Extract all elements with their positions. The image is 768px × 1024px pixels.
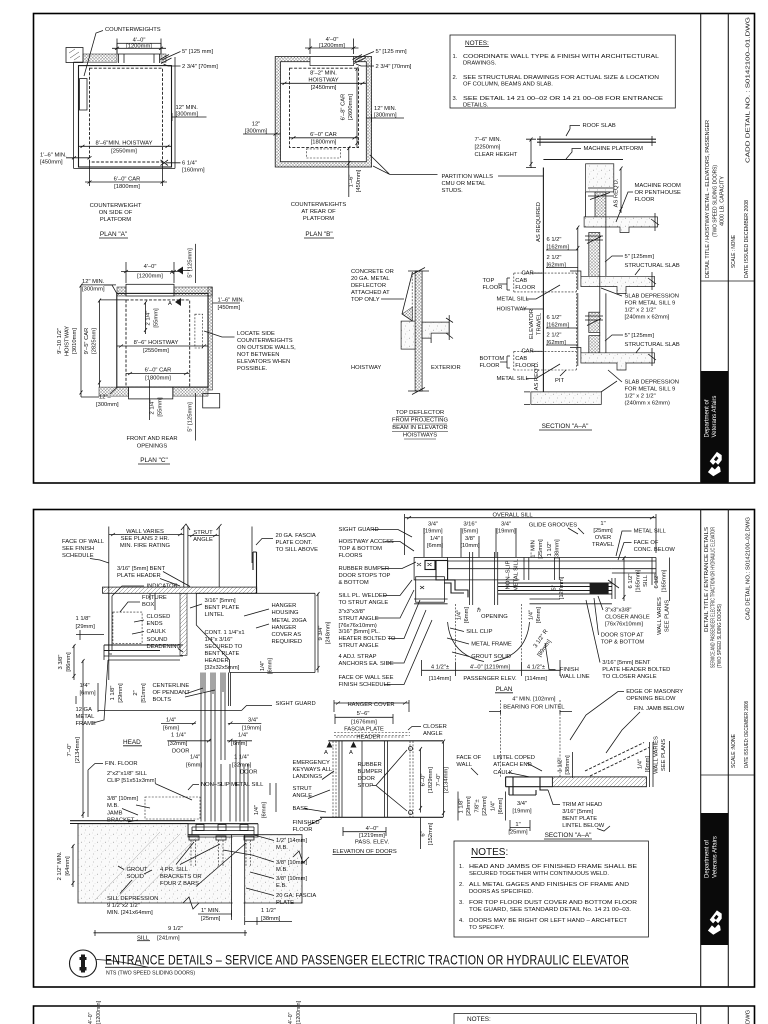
svg-text:PARTITION WALLS: PARTITION WALLS (442, 174, 494, 180)
sill assembly top (188, 824, 258, 835)
svg-text:ANCHORS EA. SIDE: ANCHORS EA. SIDE (339, 661, 394, 667)
svg-text:[25mm]: [25mm] (201, 916, 221, 922)
frame profile below header left (109, 593, 155, 654)
counterweights leader (84, 31, 103, 77)
svg-text:A: A (168, 301, 172, 307)
svg-text:TOE GUARD, SEE STANDARD DE: TOE GUARD, SEE STANDARD DETAIL No. 14 21… (469, 907, 631, 913)
svg-text:1 1/8": 1 1/8" (110, 686, 116, 701)
svg-text:4'–0": 4'–0" (366, 826, 379, 832)
svg-text:[6mm]: [6mm] (163, 726, 179, 732)
svg-text:ON SIDE OF: ON SIDE OF (99, 210, 133, 216)
svg-text:2.: 2. (459, 882, 464, 888)
svg-text:2 3/4" [70mm]: 2 3/4" [70mm] (376, 64, 412, 70)
svg-text:SILL CLIP: SILL CLIP (466, 629, 492, 635)
svg-text:4" MIN. [102mm]: 4" MIN. [102mm] (512, 697, 556, 703)
svg-text:[38mm]: [38mm] (565, 755, 571, 775)
svg-text:Veterans Affairs: Veterans Affairs (713, 836, 719, 878)
svg-text:SEE PLANS: SEE PLANS (665, 600, 671, 632)
svg-text:3/16" [5mm]: 3/16" [5mm] (205, 598, 236, 604)
svg-text:3/16" [5mm] PL.: 3/16" [5mm] PL. (339, 629, 381, 635)
svg-text:2 1/2" MIN.: 2 1/2" MIN. (57, 851, 63, 880)
svg-text:ALL METAL GAGES AND FINISH: ALL METAL GAGES AND FINISHES OF FRAME AN… (469, 882, 629, 888)
svg-text:9 3/4": 9 3/4" (318, 626, 324, 641)
svg-text:AS REQ'D.: AS REQ'D. (614, 178, 620, 207)
svg-text:HEAD AND JAMBS OF FINISHED: HEAD AND JAMBS OF FINISHED FRAME SHALL B… (469, 864, 637, 870)
svg-text:OPENING BELOW: OPENING BELOW (626, 696, 676, 702)
svg-text:3"x3"x3/8": 3"x3"x3/8" (605, 608, 631, 614)
plan B car dashed rect (290, 68, 359, 147)
door swing arcs (448, 622, 484, 662)
dim ext lines top (424, 528, 516, 557)
svg-text:SILL DEPRESSION: SILL DEPRESSION (107, 896, 158, 902)
svg-text:WALL: WALL (456, 762, 472, 768)
svg-text:9'–5" CAR: 9'–5" CAR (84, 328, 90, 355)
bolt dashed hangers (191, 840, 251, 866)
svg-text:SEE STRUCTURAL DRAWINGS FOR: SEE STRUCTURAL DRAWINGS FOR ACTUAL SIZE … (463, 75, 659, 81)
svg-text:1/4": 1/4" (529, 610, 535, 620)
plan B 4-0 dim (305, 39, 359, 55)
svg-text:12" MIN.: 12" MIN. (374, 106, 397, 112)
plan A top wall hatched band (83, 54, 117, 62)
title strip divider lines (700, 510, 702, 988)
svg-text:1": 1" (600, 521, 605, 527)
svg-text:4000 LB. CAPACITY: 4000 LB. CAPACITY (720, 176, 726, 226)
svg-text:Department of: Department of (705, 399, 711, 437)
svg-text:FLOORS: FLOORS (339, 553, 363, 559)
svg-text:WALL VARIES: WALL VARIES (654, 736, 660, 774)
svg-text:FIN. FLOOR: FIN. FLOOR (105, 761, 138, 767)
svg-text:SCHEDULE: SCHEDULE (62, 553, 94, 559)
door panel verticals elevation (333, 741, 413, 817)
svg-text:REQUIRED: REQUIRED (272, 639, 303, 645)
svg-text:1/4": 1/4" (166, 718, 176, 724)
svg-text:[29mm]: [29mm] (118, 683, 124, 703)
svg-text:TRAVEL: TRAVEL (592, 542, 615, 548)
svg-text:1 1/2": 1 1/2" (558, 758, 564, 773)
svg-text:[2450mm]: [2450mm] (311, 85, 337, 91)
svg-text:1" MIN.: 1" MIN. (201, 908, 221, 914)
svg-text:[38mm]: [38mm] (261, 916, 281, 922)
svg-text:CAB: CAB (515, 356, 527, 362)
svg-text:HOISTWAY: HOISTWAY (351, 365, 381, 371)
svg-text:ENDS: ENDS (147, 621, 163, 627)
svg-text:[29mm]: [29mm] (76, 624, 96, 630)
svg-text:PLATFORM: PLATFORM (100, 217, 131, 223)
svg-text:1/2" x 2 1/2": 1/2" x 2 1/2" (625, 394, 656, 400)
plan A door opening rect (117, 43, 161, 54)
svg-text:6 1/2": 6 1/2" (628, 574, 634, 589)
svg-text:HOISTWAY: HOISTWAY (497, 307, 527, 313)
plan B counterweight dashed (306, 149, 340, 158)
door dims below head (98, 710, 242, 712)
svg-text:[152mm]: [152mm] (428, 822, 434, 845)
svg-text:FOUR Z BARS: FOUR Z BARS (160, 881, 199, 887)
svg-text:CLOSED: CLOSED (147, 614, 171, 620)
svg-text:TO CLOSER ANGLE: TO CLOSER ANGLE (602, 674, 656, 680)
svg-text:[38mm]: [38mm] (555, 539, 561, 559)
svg-text:[1200mm]: [1200mm] (137, 274, 163, 280)
svg-text:LINTEL BELOW: LINTEL BELOW (562, 823, 605, 829)
floor line elevation (320, 816, 443, 818)
svg-text:HOISTWAYS: HOISTWAYS (403, 433, 437, 439)
svg-text:6": 6" (421, 831, 427, 836)
svg-text:RUBBER BUMPER: RUBBER BUMPER (339, 566, 390, 572)
svg-text:FIXTURE: FIXTURE (142, 595, 167, 601)
plan C 4-0 dim (121, 262, 179, 283)
svg-text:3/16" [5mm] BENT: 3/16" [5mm] BENT (117, 566, 166, 572)
A section arrows (327, 742, 333, 748)
svg-text:FINISH SCHEDULE: FINISH SCHEDULE (339, 682, 391, 688)
svg-text:4.: 4. (459, 918, 464, 924)
svg-text:DRAWINGS.: DRAWINGS. (463, 61, 497, 67)
svg-text:6 1/2": 6 1/2" (547, 237, 562, 243)
svg-text:SIGHT GUARD: SIGHT GUARD (339, 527, 379, 533)
svg-text:[241mm]: [241mm] (157, 936, 180, 942)
svg-text:[86mm]: [86mm] (66, 652, 72, 672)
svg-text:6 1/2": 6 1/2" (654, 574, 660, 589)
svg-text:[1800mm]: [1800mm] (311, 140, 337, 146)
svg-text:[2825mm]: [2825mm] (92, 328, 98, 354)
svg-text:2 1/4": 2 1/4" (146, 311, 152, 326)
svg-text:TO SILL ABOVE: TO SILL ABOVE (276, 547, 319, 553)
svg-text:METAL 20GA: METAL 20GA (272, 618, 307, 624)
svg-text:ELEVATOR: ELEVATOR (529, 309, 535, 339)
svg-text:OPENINGS: OPENINGS (137, 444, 168, 450)
svg-text:4 1/2"±: 4 1/2"± (527, 665, 545, 671)
concrete mass below floor (78, 824, 302, 903)
svg-text:AS REQ'D.: AS REQ'D. (534, 361, 540, 390)
svg-text:9'–10 1/2": 9'–10 1/2" (57, 328, 63, 354)
svg-text:BEARING FOR LINTEL: BEARING FOR LINTEL (503, 705, 565, 711)
hanger housing outline (196, 593, 315, 672)
svg-text:METAL FRAME: METAL FRAME (471, 642, 512, 648)
svg-text:[64mm]: [64mm] (65, 856, 71, 876)
svg-text:2": 2" (133, 690, 139, 695)
pendant bolts hanging (203, 673, 223, 695)
svg-text:[1219mm]: [1219mm] (359, 833, 385, 839)
svg-text:JAMB: JAMB (107, 811, 123, 817)
svg-text:[2550mm]: [2550mm] (143, 348, 169, 354)
svg-text:[22mm]: [22mm] (482, 796, 488, 816)
deflector bottom ticks (408, 388, 429, 395)
svg-text:SCALE : NONE: SCALE : NONE (731, 235, 737, 268)
svg-text:FACE OF: FACE OF (456, 755, 481, 761)
svg-text:NOTES:: NOTES: (471, 847, 508, 858)
svg-text:[162mm]: [162mm] (547, 245, 570, 251)
svg-text:OPENING: OPENING (481, 614, 508, 620)
beam block (401, 321, 415, 349)
svg-text:CLIP [51x51x3mm]: CLIP [51x51x3mm] (107, 778, 157, 784)
car side dashed vertical (575, 273, 577, 370)
svg-text:SOUND: SOUND (147, 637, 168, 643)
svg-text:(240mm x 62mm): (240mm x 62mm) (625, 401, 670, 407)
svg-text:1": 1" (515, 822, 520, 828)
pit floor (531, 392, 601, 405)
svg-text:[1200mm]: [1200mm] (96, 1000, 102, 1024)
plan C right wall hatch (208, 287, 213, 390)
svg-text:[2250mm]: [2250mm] (475, 145, 501, 151)
svg-text:CENTERLINE: CENTERLINE (153, 683, 190, 689)
svg-text:[248mm]: [248mm] (326, 621, 332, 644)
car/cab floor dashed top (514, 273, 577, 292)
svg-text:1/4": 1/4" (190, 755, 200, 761)
plan C section marker A inner (175, 298, 181, 306)
masonry opening dashed (456, 604, 522, 662)
svg-text:[76x76x10mm]: [76x76x10mm] (605, 622, 643, 628)
svg-text:FLOOR: FLOOR (515, 363, 535, 369)
svg-text:5'–6": 5'–6" (357, 711, 370, 717)
svg-text:1/4": 1/4" (638, 759, 644, 769)
svg-text:2 3/4" [70mm]: 2 3/4" [70mm] (182, 64, 218, 70)
svg-text:(TWO SPEED SLIDING DOORS): (TWO SPEED SLIDING DOORS) (713, 165, 719, 237)
svg-text:DETAILS.: DETAILS. (463, 103, 489, 109)
svg-text:1.: 1. (459, 864, 464, 870)
svg-text:GLIDE GROOVES: GLIDE GROOVES (529, 523, 577, 529)
svg-text:PLATE CONT.: PLATE CONT. (276, 540, 313, 546)
svg-text:[19mm]: [19mm] (242, 726, 262, 732)
svg-text:2 1/2": 2 1/2" (547, 255, 562, 261)
svg-text:4 1/2"±: 4 1/2"± (431, 665, 449, 671)
svg-text:5" [125mm]: 5" [125mm] (625, 254, 655, 260)
machine room floor slab (584, 217, 657, 233)
svg-text:COUNTERWEIGHTS: COUNTERWEIGHTS (237, 338, 293, 344)
svg-text:FASCIA PLATE: FASCIA PLATE (344, 727, 384, 733)
plan A counterweight square top-left (66, 48, 83, 63)
svg-text:GROUT: GROUT (127, 867, 148, 873)
svg-text:SOLID: SOLID (127, 874, 144, 880)
plan A 4-0 dim (112, 39, 166, 54)
svg-text:2.: 2. (453, 75, 458, 81)
svg-text:HEAD: HEAD (123, 739, 141, 746)
svg-text:CAB: CAB (515, 278, 527, 284)
svg-text:BOX: BOX (142, 602, 154, 608)
plan C hoistway rect (117, 293, 208, 387)
svg-text:SERVICE AND PASSENGER ELECTRIC: SERVICE AND PASSENGER ELECTRIC TRACTION … (711, 527, 717, 668)
svg-text:Veterans Affairs: Veterans Affairs (712, 396, 718, 438)
svg-text:ELEVATION OF DOORS: ELEVATION OF DOORS (333, 849, 397, 855)
svg-text:NOT BETWEEN: NOT BETWEEN (237, 352, 279, 358)
svg-text:PLAN: PLAN (496, 686, 513, 693)
svg-text:5" [125mm]: 5" [125mm] (625, 333, 655, 339)
svg-text:6'–0": 6'–0" (421, 774, 427, 787)
svg-text:BENT PLATE: BENT PLATE (562, 816, 597, 822)
svg-text:[6mm]: [6mm] (645, 756, 651, 772)
svg-text:3 3/8": 3 3/8" (58, 655, 64, 670)
svg-text:PLATE: PLATE (276, 900, 294, 906)
svg-text:E.B.: E.B. (276, 883, 287, 889)
VA logo (708, 910, 722, 934)
svg-text:4'–0": 4'–0" (144, 264, 157, 270)
svg-text:FRAME: FRAME (76, 721, 96, 727)
svg-text:6 1/4": 6 1/4" (182, 161, 197, 167)
svg-text:TOP: TOP (483, 278, 495, 284)
svg-text:1/4": 1/4" (457, 610, 463, 620)
svg-text:CONC. BELOW: CONC. BELOW (634, 547, 676, 553)
top header line (328, 740, 443, 742)
svg-text:ENTRANCE DETAILS – SERVICE AND: ENTRANCE DETAILS – SERVICE AND PASSENGER… (105, 953, 629, 968)
plan A hoistway outer rect (79, 66, 172, 167)
svg-text:LINTEL: LINTEL (205, 612, 225, 618)
svg-text:FOR METAL SILL 9: FOR METAL SILL 9 (625, 387, 676, 393)
svg-text:[6mm]: [6mm] (268, 658, 274, 674)
svg-text:BEAM IN ELEVATOR: BEAM IN ELEVATOR (392, 425, 447, 431)
svg-text:DOOR: DOOR (240, 770, 257, 776)
svg-text:[1800mm]: [1800mm] (145, 376, 171, 382)
svg-text:[55mm]: [55mm] (154, 308, 160, 328)
svg-text:20 GA. FASCIA: 20 GA. FASCIA (276, 533, 316, 539)
svg-text:NTS (TWO SPEED SLIDING DOO: NTS (TWO SPEED SLIDING DOORS) (106, 971, 195, 977)
plan B door opening rect (310, 57, 354, 66)
svg-text:STRUT: STRUT (293, 786, 313, 792)
svg-text:[450mm]: [450mm] (40, 160, 63, 166)
svg-text:[1200mm]: [1200mm] (319, 43, 345, 49)
plan C counterweight dashed right (195, 314, 203, 348)
floor line (70, 821, 195, 824)
svg-text:[25mm]: [25mm] (508, 830, 528, 836)
svg-text:ℏ: ℏ (477, 607, 481, 614)
svg-text:[19mm]: [19mm] (423, 529, 443, 535)
metal sill step (570, 271, 581, 276)
right wall vertical (600, 217, 606, 353)
VA black box (701, 371, 729, 483)
wall column hatched upper (589, 233, 600, 277)
svg-text:[300mm]: [300mm] (245, 129, 268, 135)
svg-text:FINISHED: FINISHED (293, 820, 320, 826)
svg-text:Department of: Department of (705, 840, 711, 878)
svg-text:SCALE :NONE: SCALE :NONE (731, 734, 737, 768)
svg-text:COORDINATE WALL TYPE & FIN: COORDINATE WALL TYPE & FINISH WITH ARCHI… (463, 54, 660, 60)
svg-text:MIN. FIRE RATING: MIN. FIRE RATING (120, 543, 171, 549)
svg-text:[162mm]: [162mm] (547, 323, 570, 329)
svg-text:3/4": 3/4" (501, 522, 511, 528)
svg-text:CMU OR METAL: CMU OR METAL (442, 181, 487, 187)
svg-text:FIN. JAMB BELOW: FIN. JAMB BELOW (634, 706, 685, 712)
svg-text:FLOOR: FLOOR (480, 363, 500, 369)
svg-text:OF COLUMN, BEAMS AND SLAB.: OF COLUMN, BEAMS AND SLAB. (463, 82, 553, 88)
sheet 3 border top (34, 1006, 755, 1024)
svg-text:ON OUTSIDE WALLS,: ON OUTSIDE WALLS, (237, 345, 296, 351)
svg-text:6'–0" CAR: 6'–0" CAR (310, 132, 337, 138)
sill groove slots (196, 825, 204, 831)
svg-text:METAL SILL: METAL SILL (497, 297, 530, 303)
svg-text:3/16": 3/16" (463, 522, 476, 528)
svg-text:[6mm]: [6mm] (186, 763, 202, 769)
title circle symbol (70, 950, 97, 977)
svg-text:AT REAR OF: AT REAR OF (301, 209, 336, 215)
door panels plan right (498, 583, 612, 594)
svg-text:1/2" [14mm]: 1/2" [14mm] (276, 838, 307, 844)
svg-text:3.: 3. (453, 96, 458, 102)
bumper circles (409, 747, 413, 751)
svg-text:SECTION "A–A": SECTION "A–A" (545, 832, 592, 839)
svg-text:TOP ONLY: TOP ONLY (351, 297, 380, 303)
fascia plate hook (253, 552, 257, 593)
svg-text:NON–SLIP METAL SILL: NON–SLIP METAL SILL (201, 782, 264, 788)
plan C corner block bottom right (203, 394, 220, 408)
plan A outer wall lines (74, 57, 176, 168)
svg-text:(TWO SPEED SLIDING DOORS): (TWO SPEED SLIDING DOORS) (717, 604, 723, 668)
plan C car dashed rect (126, 300, 190, 387)
svg-text:DOOR STOP AT: DOOR STOP AT (601, 633, 644, 639)
svg-text:M.B.: M.B. (276, 845, 288, 851)
svg-text:AT EACH END: AT EACH END (493, 762, 531, 768)
door panels vertical (201, 673, 225, 822)
svg-text:4 ADJ. STRAP: 4 ADJ. STRAP (339, 654, 377, 660)
svg-text:[19mm]: [19mm] (496, 529, 516, 535)
svg-text:WALL VARIES: WALL VARIES (126, 529, 164, 535)
svg-text:[3010mm]: [3010mm] (72, 328, 78, 354)
svg-text:SEE FINISH: SEE FINISH (62, 546, 94, 552)
svg-text:DETAIL TITLE / ENTRANCE DETAIL: DETAIL TITLE / ENTRANCE DETAILS (704, 527, 710, 632)
svg-text:DOORS MAY BE RIGHT OR LEF: DOORS MAY BE RIGHT OR LEFT HAND – ARCHIT… (469, 918, 627, 924)
sill anchor plates (189, 836, 199, 840)
svg-text:COUNTERWEIGHTS: COUNTERWEIGHTS (291, 202, 347, 208)
svg-text:MIN. [241x64mm]: MIN. [241x64mm] (107, 910, 153, 916)
right sill end lines (612, 558, 656, 586)
svg-text:[32mm]: [32mm] (232, 763, 252, 769)
svg-text:[32x32x5mm]: [32x32x5mm] (205, 665, 240, 671)
svg-text:METAL: METAL (76, 714, 96, 720)
svg-text:[165mm]: [165mm] (636, 569, 642, 592)
svg-text:4'–0": 4'–0" (88, 1012, 94, 1024)
svg-text:WALL VARIES: WALL VARIES (657, 597, 663, 635)
svg-text:BUMPER: BUMPER (358, 769, 383, 775)
svg-text:[55mm]: [55mm] (158, 397, 164, 417)
svg-text:GROUT SOLID: GROUT SOLID (471, 654, 511, 660)
svg-text:FACE OF: FACE OF (634, 540, 659, 546)
bent plate header hatched band (103, 587, 257, 593)
corner tick marks (160, 55, 172, 64)
svg-text:3/4": 3/4" (428, 522, 438, 528)
svg-text:[240mm x 62mm]: [240mm x 62mm] (625, 315, 670, 321)
svg-text:[300mm]: [300mm] (374, 113, 397, 119)
svg-text:9 1/2"x2 1/2": 9 1/2"x2 1/2" (107, 903, 140, 909)
svg-text:WALL LINE: WALL LINE (560, 674, 590, 680)
svg-text:TRAVEL: TRAVEL (537, 312, 543, 335)
svg-text:PLAN "C": PLAN "C" (140, 457, 168, 464)
svg-text:ANGLE: ANGLE (193, 537, 213, 543)
svg-text:[114mm]: [114mm] (429, 676, 452, 682)
svg-text:6'–0" CAR: 6'–0" CAR (114, 177, 141, 183)
svg-text:[160mm]: [160mm] (182, 168, 205, 174)
svg-text:5" [125mm]: 5" [125mm] (188, 248, 194, 278)
svg-text:AS REQUIRED: AS REQUIRED (536, 202, 542, 242)
svg-text:CLOSER: CLOSER (423, 724, 447, 730)
svg-text:[6mm]: [6mm] (498, 798, 504, 814)
svg-text:FLOOR: FLOOR (293, 827, 313, 833)
svg-text:[25mm]: [25mm] (538, 539, 544, 559)
svg-text:2 1/2": 2 1/2" (547, 333, 562, 339)
svg-text:FACE OF WALL SEE: FACE OF WALL SEE (339, 675, 394, 681)
svg-text:5" [125 mm]: 5" [125 mm] (182, 49, 213, 55)
svg-text:SILL: SILL (643, 574, 649, 587)
slab end ticks (431, 315, 453, 343)
svg-text:9 1/2": 9 1/2" (168, 926, 183, 932)
svg-text:[2550mm]: [2550mm] (111, 149, 137, 155)
svg-text:DATE ISSUED: DECEMBER 2008: DATE ISSUED: DECEMBER 2008 (744, 701, 750, 768)
bottom floor slab (581, 353, 655, 370)
svg-text:SEE PLANS: SEE PLANS (661, 739, 667, 771)
svg-text:2 1/4": 2 1/4" (150, 400, 156, 415)
svg-text:SIGHT GUARD: SIGHT GUARD (276, 701, 316, 707)
svg-text:3/8" [10mm]: 3/8" [10mm] (107, 796, 138, 802)
svg-text:FROM PROJECTING: FROM PROJECTING (392, 418, 449, 424)
svg-text:HEADER: HEADER (356, 735, 380, 741)
svg-text:1 1/2": 1 1/2" (547, 542, 553, 557)
svg-text:3/4": 3/4" (517, 801, 527, 807)
svg-text:NON–SLIP: NON–SLIP (506, 561, 512, 590)
svg-text:3/8" [10mm]: 3/8" [10mm] (276, 876, 307, 882)
